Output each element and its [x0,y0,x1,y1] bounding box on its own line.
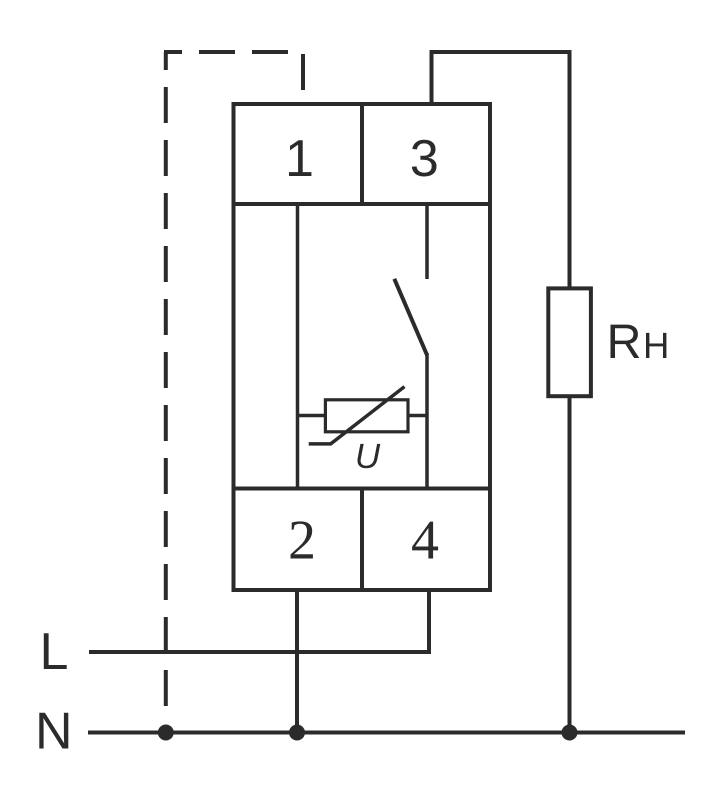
wire dashed enclosure top segment [164,50,303,54]
wire switch to terminal 4 internal [425,353,429,489]
wire terminal 2 to N line [295,590,299,733]
wire N line [88,731,685,735]
wire terminal 4 to L line [427,590,431,654]
wire bottom terminal row top line [232,487,493,491]
wire bottom terminal divider [360,489,364,591]
resistor RH body [548,288,591,396]
switch S1 blade [394,279,427,355]
varistor U value label [358,444,381,468]
terminal 1 label [289,140,311,176]
wire terminal 3 to load resistor top [432,52,570,288]
terminal 4 label [412,522,438,559]
resistor RH label [611,325,667,358]
node L label [44,633,67,669]
wire dashed enclosure left drop to N junction [164,52,168,714]
wire L line [89,650,429,654]
junction dot terminal2-N [289,725,305,741]
junction dot resistor-N [562,725,578,741]
node N label [39,713,68,749]
wire resistor bottom to N junction [568,396,572,732]
wire dashed enclosure right drop to device top [301,54,305,104]
wire terminal 1 to terminal 2 internal [296,204,300,489]
switch S1 fixed contact [425,204,429,279]
wire top terminal row bottom line [232,202,493,206]
wire top terminal divider [360,104,364,204]
wire varistor left lead [298,414,326,418]
varistor diagonal stroke [309,387,405,444]
junction dot enclosure-N [158,725,174,741]
device outline [234,104,491,590]
varistor RU body [325,400,408,432]
terminal 3 label [412,140,437,177]
terminal 2 label [291,521,313,558]
wire varistor right lead [408,414,427,418]
